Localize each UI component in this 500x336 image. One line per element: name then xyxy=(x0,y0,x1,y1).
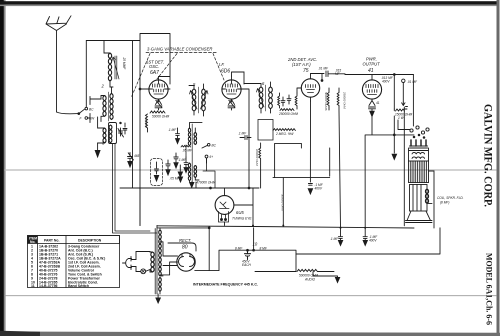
svg-text:5: 5 xyxy=(193,82,196,87)
border bottom scan bar xyxy=(0,332,500,336)
speaker connector body xyxy=(410,140,428,148)
svg-text:1 W: 1 W xyxy=(398,116,405,120)
ground osc 1 xyxy=(178,165,182,177)
junction dots y188 xyxy=(210,187,212,189)
wire v1 plate up xyxy=(159,60,171,84)
AVC resistor horizontal xyxy=(273,129,295,136)
svg-text:(1ST A.F.): (1ST A.F.) xyxy=(292,62,311,67)
label V1 xyxy=(146,60,164,77)
svg-text:400V: 400V xyxy=(315,187,323,191)
svg-text:I.F.: I.F. xyxy=(219,62,225,67)
ground 41 stage xyxy=(392,154,397,159)
svg-text:OSC.: OSC. xyxy=(149,64,159,69)
volume control R xyxy=(255,254,340,283)
label V3 xyxy=(287,57,317,74)
svg-text:6+: 6+ xyxy=(210,155,214,159)
resistor small mid xyxy=(181,145,193,152)
cluster feed wires xyxy=(186,145,215,188)
svg-text:OUTPUT: OUTPUT xyxy=(363,61,381,66)
label V6 xyxy=(232,210,252,221)
resistor 250k vertical xyxy=(337,88,346,110)
wires V1 region xyxy=(104,34,170,226)
resistor 500k vertical xyxy=(324,88,329,111)
power plug xyxy=(123,257,137,270)
svg-text:(8 MF): (8 MF) xyxy=(440,201,449,205)
B+ line y254 xyxy=(296,228,440,254)
svg-text:50000 OHM: 50000 OHM xyxy=(152,115,170,119)
tube V4 41 xyxy=(362,75,381,102)
speaker wires xyxy=(398,120,434,228)
antenna xyxy=(46,16,71,112)
label speaker field xyxy=(437,196,464,205)
svg-text:No.: No. xyxy=(30,240,36,244)
svg-text:.01 MF: .01 MF xyxy=(318,67,329,71)
svg-text:RECT.: RECT. xyxy=(179,238,191,243)
svg-text:6U5: 6U5 xyxy=(236,210,244,215)
svg-text:500000 OHM: 500000 OHM xyxy=(281,194,285,211)
svg-text:41: 41 xyxy=(368,68,374,74)
ground osc 2 xyxy=(190,182,194,188)
gang dashed line 1 xyxy=(131,54,150,99)
svg-text:BC: BC xyxy=(212,143,217,147)
tube V2 6D6 xyxy=(222,76,242,102)
svg-text:75: 75 xyxy=(303,68,309,74)
long bus y225 xyxy=(157,226,414,228)
wire 41 right verticals xyxy=(394,75,413,127)
speaker cone xyxy=(406,211,433,223)
svg-text:6D6: 6D6 xyxy=(221,69,230,75)
crease line bottom xyxy=(5,295,496,297)
diode load resistor vertical 1 xyxy=(278,93,280,108)
svg-text:EACH: EACH xyxy=(242,263,252,267)
svg-text:.1 MF: .1 MF xyxy=(168,128,177,132)
transformer center tap ground xyxy=(156,294,161,303)
bypass cap 1 with ground xyxy=(330,228,343,246)
small caps beside 75 xyxy=(281,95,291,106)
coupling cap C out of 75 xyxy=(311,67,342,77)
rectifier plate wiring xyxy=(157,226,209,275)
border left scan bar xyxy=(0,0,4,336)
wire antenna to switch xyxy=(57,112,79,114)
trimmer inside can xyxy=(154,162,158,181)
border right scan line xyxy=(497,0,500,336)
svg-text:400V: 400V xyxy=(382,79,390,83)
svg-text:41: 41 xyxy=(376,101,380,105)
small caps cluster under V1 xyxy=(166,153,187,181)
diode load resistor vertical 2 xyxy=(295,93,297,109)
svg-text:2: 2 xyxy=(101,84,105,89)
grid resistor R1 xyxy=(150,111,170,119)
junction dots bus xyxy=(252,225,366,229)
contact terminal 6+ xyxy=(205,155,213,163)
svg-text:6: 6 xyxy=(262,81,265,86)
vertical wire with label xyxy=(281,178,285,226)
bias resistor R2 vertical xyxy=(144,114,148,132)
on-off switch on line xyxy=(136,252,150,274)
wire switch SW link xyxy=(88,97,101,123)
svg-text:465: 465 xyxy=(134,154,140,158)
svg-text:3-GANG VARIABLE CONDENSER: 3-GANG VARIABLE CONDENSER xyxy=(147,47,212,52)
tone resistor 15000 xyxy=(394,109,412,120)
svg-text:PART No.: PART No. xyxy=(44,239,59,243)
svg-text:500000 OHMS: 500000 OHMS xyxy=(324,92,328,111)
junction dot 75 plate xyxy=(321,80,323,82)
long vertical pair to power transformer xyxy=(113,144,158,234)
svg-text:400V: 400V xyxy=(369,239,377,243)
svg-text:.05 MF: .05 MF xyxy=(182,149,193,153)
oscillator coil assembly xyxy=(188,123,202,182)
crease line mid xyxy=(5,169,496,171)
electrolytic C 8MF xyxy=(208,227,268,267)
svg-text:INTERMEDIATE FREQUENCY 445 K.C: INTERMEDIATE FREQUENCY 445 K.C. xyxy=(193,281,258,286)
svg-text:Band Switch: Band Switch xyxy=(68,284,89,288)
wire bottom of 41 stage xyxy=(339,107,414,228)
cap label .013 xyxy=(381,76,394,83)
field coil xyxy=(409,161,429,183)
osc switch contacts xyxy=(202,143,217,148)
svg-text:6A7: 6A7 xyxy=(150,70,159,76)
svg-text:100000 OHM: 100000 OHM xyxy=(255,149,259,166)
svg-text:COIL, SPKR. FLD.: COIL, SPKR. FLD. xyxy=(437,196,464,200)
wires tuning eye xyxy=(196,182,253,226)
long bus y188 xyxy=(120,89,259,226)
svg-text:470000 OHM: 470000 OHM xyxy=(196,181,215,185)
speaker plug pins xyxy=(410,126,429,138)
svg-text:BC: BC xyxy=(89,107,94,111)
svg-text:250000 OHM: 250000 OHM xyxy=(278,112,298,116)
gang condenser label xyxy=(146,47,217,53)
junction dots on bus xyxy=(393,74,395,76)
tone arrow T xyxy=(402,102,408,107)
output transformer on speaker xyxy=(410,185,429,212)
tube V1 6A7 xyxy=(139,77,170,103)
svg-text:25 MMF: 25 MMF xyxy=(122,57,126,71)
tuning eye V6 xyxy=(215,196,234,222)
resistor horizontal 250k xyxy=(278,109,298,116)
tube V3 75 xyxy=(301,75,319,101)
screen box 2 xyxy=(258,120,273,141)
svg-text:MODEL 6A1,Ch. 6-6: MODEL 6A1,Ch. 6-6 xyxy=(485,253,494,325)
band switch SW1 xyxy=(78,107,95,120)
svg-text:10: 10 xyxy=(253,242,258,247)
mid band wires 75 stage xyxy=(273,101,330,194)
trimmer padder C osc xyxy=(118,122,127,137)
resistor 100k vertical xyxy=(255,143,261,188)
label V5 xyxy=(179,238,191,251)
border top scan bar xyxy=(0,1,497,4)
shield can dashed xyxy=(151,159,163,186)
IF transformer T1 xyxy=(189,82,208,116)
svg-text:8 MF: 8 MF xyxy=(260,246,268,250)
svg-text:250000 OHM: 250000 OHM xyxy=(343,91,347,109)
cathode trimmer V2 xyxy=(228,100,235,111)
svg-text:.1 MF: .1 MF xyxy=(330,237,339,241)
svg-text:8 MF: 8 MF xyxy=(235,246,243,250)
screen tap circle xyxy=(402,79,418,84)
svg-text:2 MEG. ½W: 2 MEG. ½W xyxy=(275,132,294,136)
cathode network V4 xyxy=(369,101,380,117)
svg-text:DESCRIPTION: DESCRIPTION xyxy=(78,239,102,243)
cathode trimmer V1 xyxy=(155,99,162,110)
svg-text:80: 80 xyxy=(182,245,188,251)
wire V2 plate xyxy=(232,72,245,84)
antenna coil L2 secondary pair xyxy=(101,87,113,122)
gang dashed line 3 xyxy=(213,54,224,81)
label V4 xyxy=(363,57,381,75)
svg-text:.01 MF: .01 MF xyxy=(407,80,418,84)
label V2 xyxy=(219,62,230,75)
svg-text:GALVIN MFG. CORP.: GALVIN MFG. CORP. xyxy=(482,104,496,207)
svg-text:.1 MF: .1 MF xyxy=(238,132,247,136)
cap with ground a xyxy=(184,157,188,173)
svg-text:AUDIO: AUDIO xyxy=(304,278,316,282)
power transformer T5 xyxy=(150,228,163,294)
svg-text:11: 11 xyxy=(31,284,35,288)
B+ from rectifier xyxy=(209,228,296,271)
svg-text:14-B-37756: 14-B-37756 xyxy=(39,284,58,288)
speaker hum coil can xyxy=(409,148,429,161)
tube V5 80 xyxy=(160,242,195,271)
svg-text:.3 MEG: .3 MEG xyxy=(144,118,148,129)
svg-text:F: F xyxy=(80,117,83,121)
parts table xyxy=(28,236,120,288)
IF transformer T2 xyxy=(244,81,301,113)
ground below shield can xyxy=(178,174,182,182)
bypass cap 2 with ground xyxy=(363,228,378,246)
gang dashed line 2 xyxy=(157,54,177,80)
padder cap with ground left xyxy=(128,153,140,168)
cap with ground b xyxy=(168,128,180,144)
oscillator coil L3 xyxy=(98,117,117,146)
wire switch BC up to coil xyxy=(86,41,104,108)
svg-text:TUNING EYE: TUNING EYE xyxy=(232,217,252,221)
antenna coil L1 (B.C.) xyxy=(104,41,126,88)
wire top bus to 41 xyxy=(322,74,413,81)
cap .1MF left xyxy=(238,132,251,140)
ground below osc coil xyxy=(95,143,100,157)
